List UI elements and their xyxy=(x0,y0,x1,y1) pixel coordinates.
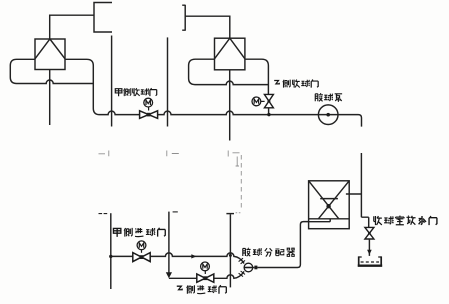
label chamber drain valve xyxy=(374,216,437,226)
faint dashed residue vertical xyxy=(240,155,242,210)
ball collecting chamber box xyxy=(309,181,350,229)
inlet vertical A xyxy=(110,213,112,289)
inlet vertical C xyxy=(229,214,231,287)
loop2 right wire xyxy=(245,59,269,94)
loop1 right wire xyxy=(65,59,100,114)
waterbox E2 bottom pipe xyxy=(229,70,231,141)
valve V3 jia-side ball-inlet xyxy=(133,241,150,262)
waterbox E1 bottom pipe xyxy=(49,70,51,126)
valve V2 drop wire xyxy=(268,108,270,115)
vertical B end arrow xyxy=(166,272,172,278)
loop2 left wire xyxy=(189,59,269,84)
distributor outlet square xyxy=(254,266,257,270)
loop1 left wire xyxy=(10,59,93,83)
screen triangle E2 xyxy=(215,38,245,59)
inlet vertical B xyxy=(168,212,170,273)
unit1 riser wire xyxy=(50,15,94,39)
label yi-side ball-inlet valve xyxy=(177,285,227,294)
pump circle xyxy=(318,105,338,125)
junction dot main pipe / V2 xyxy=(267,113,270,116)
condenser waterbox E2 xyxy=(215,38,245,70)
valve V1 jia-side ball-collect xyxy=(140,98,158,118)
label ball pump xyxy=(315,93,342,102)
chamber center dot xyxy=(326,204,330,208)
crossing dot C xyxy=(229,254,232,257)
upper feed pipe xyxy=(111,253,244,264)
water-seal trough xyxy=(358,256,383,265)
screen triangle E1 xyxy=(35,39,65,59)
valve V4 yi-side ball-inlet xyxy=(197,262,214,282)
long vertical pipe 2 xyxy=(167,37,169,126)
distributor inlet chevrons xyxy=(239,258,245,276)
drain valve (hourglass) xyxy=(365,227,374,239)
unit2 riser wire xyxy=(185,16,230,38)
valve V2 yi-side ball-collect (vertical hourglass) xyxy=(252,94,273,107)
vertical B top dash xyxy=(173,211,178,213)
label ball distributor xyxy=(243,248,295,257)
long vertical pipe 1 xyxy=(111,36,113,127)
lower feed pipe xyxy=(169,271,244,278)
condenser waterbox E1 xyxy=(35,39,65,70)
vertical A top dashes xyxy=(99,213,108,215)
main collect pipe xyxy=(100,111,362,126)
flow arrow upper pipe xyxy=(191,254,196,258)
chamber inlet pipe xyxy=(346,153,369,227)
faint residue row xyxy=(99,151,240,167)
outlet wire to chamber xyxy=(253,222,309,268)
drain pipe + arrow xyxy=(368,239,370,256)
unit1 circ-water bracket xyxy=(94,3,112,33)
label jia-side ball-inlet valve xyxy=(113,228,165,237)
ball distributor circle xyxy=(244,263,253,272)
unit2 circ-water bracket xyxy=(182,5,185,31)
label jia-side ball-collect valve xyxy=(115,88,156,96)
label yi-side ball-collect valve xyxy=(274,80,318,88)
junction dot A xyxy=(109,255,112,258)
vertical C top tick xyxy=(226,213,234,215)
